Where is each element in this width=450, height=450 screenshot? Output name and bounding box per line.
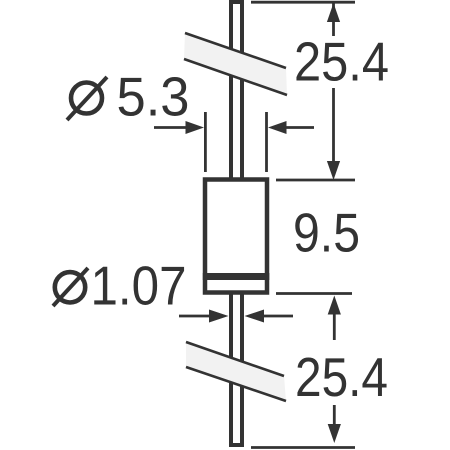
dimension 5.3: right arrowhead [268,121,287,134]
break symbol top [184,33,287,95]
dimension 1.07: left arrow line [179,315,215,318]
cathode band [203,273,269,280]
svg-text:25.4: 25.4 [294,32,389,93]
dimension 25.4 top: dimension line lower segment [332,88,335,164]
svg-text:9.5: 9.5 [293,203,360,264]
dimension 25.4 bottom: arrowhead up [328,296,341,315]
diode body [205,180,267,293]
lead wire [231,2,242,445]
dimension 25.4 top: extension line at body top [276,179,355,182]
dimension 25.4 top: dimension line upper segment [332,3,335,36]
dimension 25.4 bottom: dimension line lower segment [333,405,336,427]
dimension 25.4 bottom: arrowhead down [328,424,341,443]
dimension 25.4 top: extension line at lead tip [251,1,355,4]
svg-text:1.07: 1.07 [91,256,187,317]
dimension 5.3: left arrow line [154,126,190,129]
dimension 5.3: left arrowhead [186,121,205,134]
svg-text:25.4: 25.4 [295,347,388,408]
dimension 25.4 bottom: extension line at lead end [251,446,355,449]
svg-text:5.3: 5.3 [117,67,190,128]
dimension 9.5: extension line at body bottom [276,292,352,295]
break symbol bottom [186,342,286,401]
dimension 1.07: left arrowhead [209,310,229,323]
dimension 5.3: diameter symbol [67,77,107,120]
dimension 5.3: extension line right [265,112,268,172]
dimension 1.07: diameter symbol [53,268,88,306]
dimension 1.07: right arrow line [262,315,293,318]
dimension 25.4 top: arrowhead up [327,3,340,22]
dimension 5.3: right arrow line [283,126,314,129]
dimension 5.3: extension line left [204,112,207,172]
dimension 1.07: right arrowhead [245,310,265,323]
dimension 25.4 top: arrowhead down [327,161,340,180]
dimension 25.4 bottom: dimension line upper segment [333,313,336,340]
